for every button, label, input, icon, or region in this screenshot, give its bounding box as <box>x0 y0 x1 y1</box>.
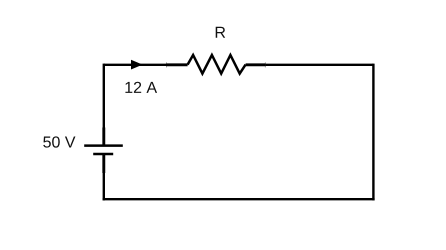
battery long plate (positive) <box>84 144 123 147</box>
battery lower lead <box>102 154 105 173</box>
wire: top-right segment from resistor terminal to top-right corner <box>265 64 373 66</box>
label: 50 V <box>43 136 75 147</box>
wire: right vertical segment <box>372 64 374 201</box>
label: R <box>216 27 226 38</box>
wire: left vertical lower segment (bottom corner up to battery terminal) <box>103 173 105 200</box>
battery short plate (negative) <box>93 153 113 156</box>
wire: top-left segment from corner to resistor terminal <box>104 64 167 66</box>
resistor left lead <box>167 63 188 66</box>
label: 12 A <box>125 82 157 93</box>
node: resistor right terminal tick <box>264 62 266 67</box>
wire: bottom segment <box>103 198 375 200</box>
battery upper lead <box>102 128 105 146</box>
resistor R zigzag <box>188 55 246 74</box>
resistor right lead <box>246 63 266 66</box>
wire: left vertical upper segment (battery terminal up to top corner) <box>103 64 105 128</box>
current arrow <box>131 60 143 70</box>
node: resistor left terminal tick <box>166 62 168 67</box>
